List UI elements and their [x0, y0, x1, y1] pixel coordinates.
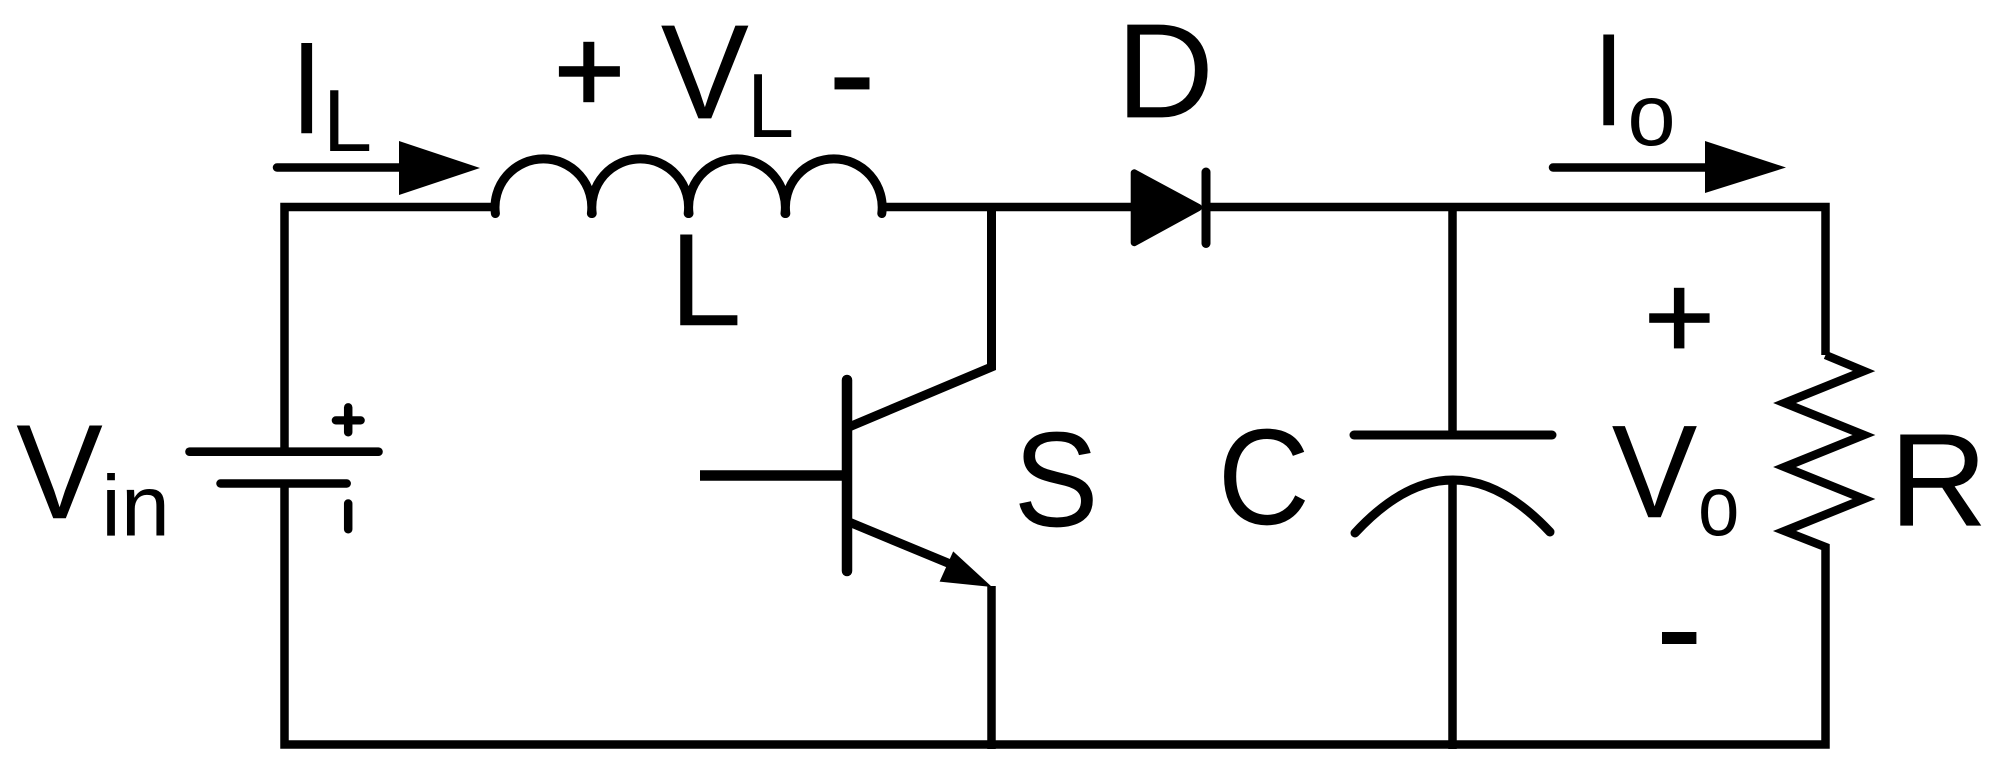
svg-text:R: R	[1889, 407, 1988, 555]
svg-text:I: I	[1593, 6, 1625, 153]
svg-text:in: in	[101, 458, 170, 554]
svg-text:L: L	[670, 206, 742, 353]
svg-text:o: o	[1698, 459, 1739, 554]
svg-text:L: L	[323, 71, 372, 170]
svg-text:V: V	[16, 396, 103, 547]
svg-text:I: I	[291, 14, 323, 161]
svg-text:V: V	[1612, 398, 1698, 546]
svg-text:C: C	[1218, 400, 1310, 553]
svg-text:o: o	[1628, 66, 1676, 164]
svg-text:L: L	[747, 55, 794, 157]
svg-text:V: V	[661, 0, 749, 147]
svg-text:D: D	[1116, 0, 1214, 146]
svg-text:S: S	[1014, 404, 1099, 555]
